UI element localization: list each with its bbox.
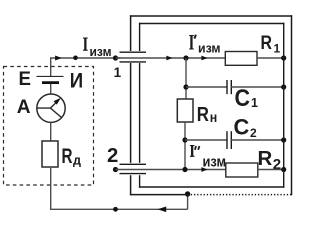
arrow on top wire (55, 56, 62, 61)
svg-text:1: 1 (274, 42, 281, 56)
ammeter needle arrow (50, 101, 57, 108)
feedthrough terminal 1 plates (120, 51, 147, 53)
arrow on bottom wire (left) (158, 207, 167, 213)
svg-text:2: 2 (250, 126, 257, 140)
junction C2 node (182, 137, 187, 142)
battery E short thick plate (42, 81, 59, 84)
svg-text:изм: изм (90, 44, 112, 59)
label I'' izm (190, 145, 226, 171)
svg-text:А: А (17, 97, 31, 118)
junction C1 node (183, 84, 188, 89)
dashed enclosure box (source unit) (4, 67, 94, 186)
junction R2 right (281, 167, 286, 172)
shield outer box (130, 15, 292, 195)
capacitor C2 plates (226, 131, 228, 149)
resistor Rn box (177, 99, 193, 122)
label I izm (83, 38, 112, 60)
battery E long plate (37, 75, 64, 77)
svg-text:изм: изм (198, 41, 221, 56)
resistor Rd box (42, 141, 58, 167)
bottom return wire (50, 208, 188, 210)
svg-text:Е: Е (19, 69, 32, 90)
resistor R2 box (226, 163, 258, 177)
svg-text:R: R (62, 145, 73, 168)
wire C1 left (186, 86, 227, 88)
junction on outer box bottom (185, 191, 190, 196)
wire 2 through feedthrough into box (116, 169, 226, 171)
wire R2 to inner wall (258, 169, 284, 171)
arrow on wire 1 (after feedthrough) (166, 56, 172, 61)
svg-text:R: R (197, 103, 209, 126)
top wire (source to terminal 1) (50, 57, 121, 59)
svg-text:C: C (234, 115, 250, 140)
svg-text:2: 2 (273, 156, 281, 173)
svg-text:R: R (258, 147, 273, 170)
wire C2 left (185, 139, 227, 141)
wire riser to shield box bottom (187, 194, 189, 210)
wire Rd to bottom rail (50, 167, 52, 209)
svg-text:д: д (73, 153, 82, 168)
junction C1 right (281, 84, 286, 89)
node I' junction (183, 55, 188, 60)
wire C1 right to inner wall (231, 86, 283, 88)
junction terminal 1 (113, 55, 118, 60)
feedthrough terminal 2 plates (120, 163, 147, 165)
ammeter A circle (37, 94, 65, 122)
wire Rn down to wire 2 (184, 122, 186, 170)
svg-text:н: н (210, 110, 218, 125)
svg-text:C: C (235, 85, 251, 112)
capacitor C1 plates (226, 80, 228, 94)
junction wire2 node (182, 167, 187, 172)
junction terminal 2 (113, 167, 118, 172)
ammeter needle lines (37, 108, 62, 118)
svg-text:R: R (261, 33, 273, 54)
junction on top wire (73, 56, 78, 61)
wire 1 through feedthrough into box (116, 57, 226, 59)
wire C2 right to inner wall (231, 139, 283, 141)
resistor R1 box (225, 52, 257, 66)
svg-text:И: И (70, 69, 83, 92)
wire battery to ammeter (50, 84, 52, 94)
svg-text:изм: изм (203, 154, 227, 171)
shield inner box (139, 23, 285, 188)
junction R1 right (281, 55, 286, 60)
svg-text:1: 1 (114, 65, 122, 80)
node vertical wire (I' node down to Rn) (185, 58, 187, 99)
junction on bottom wire (113, 207, 118, 212)
svg-text:2: 2 (107, 145, 118, 167)
arrow on wire 1 (into R1) (201, 56, 207, 61)
label I' izm (189, 35, 220, 56)
junction C2 right (281, 137, 286, 142)
wire ammeter to Rd (50, 122, 52, 141)
wire battery riser (top plate to top wire corner) (50, 58, 52, 76)
svg-text:1: 1 (251, 96, 258, 110)
wire R1 to inner wall (257, 57, 284, 59)
arrow on wire 2 (201, 167, 207, 172)
